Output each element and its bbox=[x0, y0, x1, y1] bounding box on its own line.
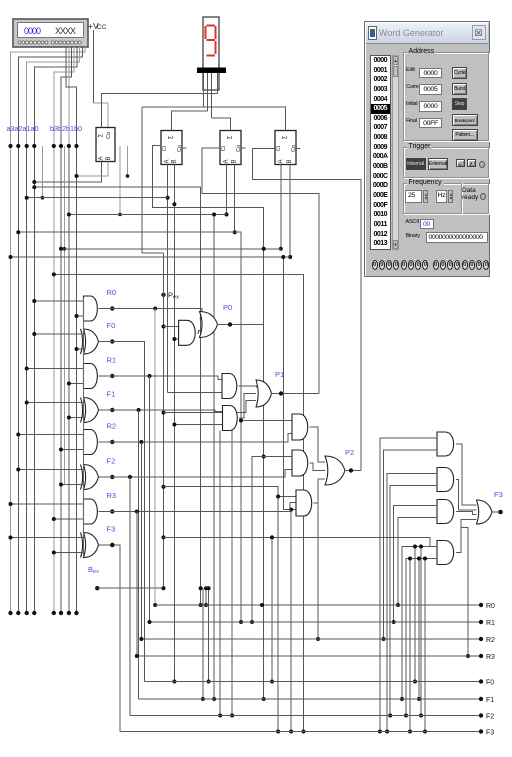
wire F2 input bottom bbox=[61, 484, 84, 486]
node F3 and2 in1 bbox=[385, 730, 389, 734]
wire Pex to F3 and4 in1 bbox=[164, 537, 438, 546]
gate P1 AND2 bbox=[223, 406, 238, 431]
wire F0 output bbox=[99, 342, 145, 682]
node a1 tap bbox=[25, 144, 29, 148]
node b3 tap rail F3 bbox=[302, 730, 306, 734]
wire P0 or out bbox=[218, 324, 264, 326]
wire XWG1 out to bus b0 bbox=[66, 47, 76, 146]
wire U2 A pin drop and riser to P1 bbox=[167, 165, 169, 393]
svg-text:a3a2a1a0: a3a2a1a0 bbox=[7, 124, 39, 133]
node riser 415 top bbox=[413, 545, 417, 549]
wire U2 B riser link to P0 and bbox=[174, 338, 178, 340]
wire F2 to rail bbox=[129, 477, 131, 716]
wire R3 input top from a3 bbox=[11, 503, 84, 505]
node a2 end bbox=[16, 611, 20, 615]
gate P1 OR bbox=[256, 380, 272, 407]
group Trigger bbox=[403, 147, 489, 179]
node a3 tap bbox=[8, 144, 12, 148]
wire Pex to P1 or gate bbox=[164, 401, 257, 413]
node riser 291 T bbox=[289, 508, 293, 512]
address list bbox=[370, 55, 391, 250]
wire XWG1 out to bus a2 bbox=[18, 47, 82, 146]
wire P1 and2 out to or bbox=[239, 394, 256, 419]
wire F3 and3 out to or bbox=[456, 512, 477, 515]
svg-text:R2: R2 bbox=[486, 637, 495, 644]
node F3 and1 in2 bbox=[382, 637, 386, 641]
node rail R3 end bbox=[479, 654, 483, 658]
wire U2 Ci from P0 bbox=[152, 146, 263, 325]
node F2 in bottom bbox=[59, 483, 63, 487]
rail R1 bbox=[150, 621, 482, 623]
node F3 in bottom bbox=[52, 551, 56, 555]
node a0 end bbox=[32, 611, 36, 615]
display black bar bbox=[197, 68, 226, 74]
node rail R1 end bbox=[479, 620, 483, 624]
wire riser 291 to rail F3 bbox=[290, 510, 292, 732]
svg-text:Σ: Σ bbox=[228, 135, 234, 139]
node a2 tap bbox=[16, 230, 20, 234]
svg-text:R3: R3 bbox=[107, 491, 117, 500]
svg-text:XXXX: XXXX bbox=[55, 26, 76, 36]
wire U3 B pin drop bbox=[234, 165, 236, 233]
svg-text:b3b2b1b0: b3b2b1b0 bbox=[50, 124, 82, 133]
wire U3 sum to display bbox=[212, 118, 231, 131]
node riser 425 top bbox=[423, 557, 427, 561]
wire riser 415 rail F0 bbox=[414, 547, 416, 682]
node R3 output bbox=[110, 509, 114, 513]
wire F1 output bbox=[99, 410, 223, 412]
svg-text:P0: P0 bbox=[223, 303, 232, 312]
node F0 in bottom bbox=[75, 347, 79, 351]
wire feeder x120 bbox=[119, 146, 121, 215]
svg-text:F2: F2 bbox=[107, 457, 116, 466]
node b0 end bbox=[74, 611, 78, 615]
node riser 415 bottom bbox=[413, 680, 417, 684]
wire F1 input bottom bbox=[69, 417, 84, 419]
node a0 tap rail bbox=[199, 603, 203, 607]
wire U4 B pin drop bbox=[289, 165, 291, 258]
bus wire b3 vertical bbox=[53, 146, 55, 613]
svg-text:F3: F3 bbox=[107, 525, 116, 534]
svg-text:B: B bbox=[171, 159, 177, 163]
full adder U2 bbox=[161, 131, 183, 165]
gate F3 AND2 bbox=[437, 468, 454, 492]
node U3 A on b1 tap bbox=[225, 213, 229, 217]
node riser 421 bottom bbox=[419, 714, 423, 718]
node drop 263 rail F1 bbox=[262, 697, 266, 701]
node Pex tap4 bbox=[162, 485, 166, 489]
wire a1 tap to U2 A bbox=[27, 197, 168, 199]
wire riser 419 rail F1 bbox=[418, 559, 420, 700]
svg-text:B: B bbox=[232, 159, 238, 163]
node a2 tap bbox=[16, 144, 20, 148]
terminal row bbox=[366, 259, 488, 275]
wire U2 B riser link to P1 and2 bbox=[174, 424, 222, 426]
wire R0 to rail bbox=[154, 309, 156, 606]
wire P0 and out to or bbox=[197, 331, 200, 333]
wire P2 or out bbox=[346, 470, 361, 472]
node R0 branch bbox=[153, 307, 157, 311]
gate P2 AND2 bbox=[292, 450, 308, 476]
node R3 in top bbox=[9, 502, 13, 506]
wire R1 to rail bbox=[149, 376, 151, 622]
wire Vcc to U1 pin gray bbox=[94, 103, 109, 128]
gate F3 XOR bbox=[84, 533, 99, 558]
node feeder 127 on U1 B wire bbox=[127, 175, 129, 177]
wire P1 or out bbox=[271, 393, 319, 395]
wire U4 sum to display bbox=[142, 107, 286, 131]
node rail F1 end bbox=[479, 697, 483, 701]
wire U3 A pin drop bbox=[226, 165, 228, 215]
node b1 end bbox=[67, 611, 71, 615]
wire R2 to rail bbox=[140, 442, 142, 639]
svg-text:F3: F3 bbox=[486, 729, 494, 736]
node a0 tap bex cross bbox=[199, 586, 203, 590]
node a0 tap bbox=[32, 144, 36, 148]
svg-text:R1: R1 bbox=[486, 620, 495, 627]
wire R0 input top from a0 bbox=[34, 300, 83, 302]
node P1 bbox=[279, 391, 283, 395]
wire riser 421 rail F2 bbox=[420, 547, 422, 716]
node riser 410 bottom bbox=[408, 730, 412, 734]
wire XWG1 out to bus b1 bbox=[68, 47, 70, 146]
wire P2 and3 out to or bbox=[314, 479, 326, 503]
node riser 291 rail F3 bbox=[289, 730, 293, 734]
gate F2 XOR bbox=[84, 465, 99, 490]
svg-text:P1: P1 bbox=[275, 370, 284, 379]
wire R3 output bbox=[99, 503, 297, 512]
wire R2 input top from a2 bbox=[18, 434, 83, 436]
node drop 263 join bbox=[262, 455, 266, 459]
svg-text:A: A bbox=[224, 159, 230, 163]
wire feeder x64 bbox=[63, 146, 65, 485]
node rail R2 end bbox=[479, 637, 483, 641]
node rail R0 end bbox=[479, 603, 483, 607]
node b3 end bbox=[52, 611, 56, 615]
svg-text:0000: 0000 bbox=[24, 26, 41, 36]
node rail R0 start bbox=[153, 603, 157, 607]
wire F2 output bbox=[99, 470, 293, 478]
node riser 232 rail F2 bbox=[230, 714, 234, 718]
node R1 output bbox=[110, 374, 114, 378]
wire riser x272 rail F0 to Pex line bbox=[271, 537, 273, 681]
wire U4 A pin drop bbox=[280, 165, 282, 249]
node U4 A on b2 tap bbox=[279, 247, 283, 251]
svg-text:R1: R1 bbox=[107, 356, 117, 365]
wire R1 output bbox=[99, 376, 223, 380]
node a0 to U1 bbox=[32, 180, 36, 184]
node rail junction bbox=[139, 637, 143, 641]
ascii / binary bbox=[406, 219, 419, 225]
node x318 rail R2 bbox=[316, 637, 320, 641]
node F0 in top bbox=[32, 332, 36, 336]
half adder U1 bbox=[96, 128, 115, 162]
wire R1 input bottom bbox=[69, 383, 84, 385]
node riser 202 rail F1 bbox=[201, 697, 205, 701]
wire U1 sum to display bbox=[101, 94, 217, 128]
wire b1 tap to U3 A bbox=[69, 214, 227, 216]
wire R3 input bottom bbox=[54, 518, 84, 520]
rail R2 bbox=[141, 638, 481, 640]
wire stub chip4 sum left drop bbox=[141, 107, 143, 253]
full adder U3 bbox=[220, 131, 242, 165]
node riser x272 bottom bbox=[270, 680, 274, 684]
wire F3 and2 out to or bbox=[456, 480, 477, 511]
node P2 and2 in1 bbox=[250, 620, 254, 624]
wire a0 tap down P1 column bbox=[34, 187, 200, 605]
gate R2 AND bbox=[84, 430, 98, 455]
node drop 283 T bbox=[281, 255, 285, 259]
bus wire a1 vertical bbox=[26, 146, 28, 613]
node feeder 120 bbox=[118, 213, 122, 217]
full adder U4 bbox=[275, 131, 297, 165]
node stub 206 rail bbox=[204, 603, 208, 607]
wire F3 and1 in2 from rail R2 bbox=[384, 450, 438, 639]
gate F3 OR bbox=[477, 500, 493, 524]
node F0 output bbox=[110, 339, 114, 343]
node b0 to U1 bbox=[75, 174, 79, 178]
node F3 and2 in2 bbox=[388, 714, 392, 718]
wire stub 206 bex to rail R0 bbox=[205, 588, 207, 605]
rail F2 bbox=[130, 715, 481, 717]
wire F3 and1 in1 from rail F3 bbox=[380, 438, 437, 732]
wire feeder x42 bbox=[41, 146, 43, 198]
node a0 tap bbox=[32, 185, 36, 189]
wire XWG1 out to bus a0 bbox=[34, 47, 77, 146]
wire U4 Co stub bbox=[296, 147, 301, 149]
rail F1 bbox=[139, 698, 481, 700]
node R1 in top bbox=[25, 367, 29, 371]
node F1 in bottom bbox=[67, 416, 71, 420]
svg-text:A: A bbox=[165, 159, 171, 163]
node F1 in top bbox=[25, 401, 29, 405]
wire feeder x127 bbox=[127, 146, 129, 176]
wire Pex riser link bbox=[142, 252, 164, 254]
wire U3 Ci from P1 bbox=[202, 148, 319, 394]
node rail F3 end bbox=[479, 729, 483, 733]
wire U2 A riser link to P1 and1 bbox=[168, 392, 222, 394]
node F3 and3 in1 bbox=[392, 620, 396, 624]
wire U2 Co stub bbox=[182, 147, 187, 149]
wire F3 and4 in1 from rail F1 bbox=[402, 547, 437, 700]
node Bex bbox=[95, 586, 99, 590]
rail F0 bbox=[144, 681, 481, 683]
node F2 in top bbox=[16, 468, 20, 472]
wire XWG1 out to bus a1 bbox=[27, 47, 80, 146]
wire R1 input top from a1 bbox=[27, 368, 84, 370]
wire U2 sum to display bbox=[172, 111, 208, 130]
node rail F0 end bbox=[479, 679, 483, 683]
node a2 tap rail bbox=[239, 620, 243, 624]
wire F3 and1 out to or bbox=[456, 444, 477, 505]
wire U1 A input from a0 bbox=[34, 162, 101, 183]
bus wire b2 vertical bbox=[60, 146, 62, 613]
svg-text:R0: R0 bbox=[107, 288, 117, 297]
node b0 tap bbox=[74, 144, 78, 148]
power +Vcc symbol bbox=[88, 21, 107, 31]
wire F3 input top from a3 bbox=[11, 537, 84, 539]
node riser 220 rail F2 bbox=[218, 714, 222, 718]
node F3g branch bbox=[110, 543, 114, 547]
node b2 tap bbox=[59, 247, 63, 251]
bus wire b1 vertical bbox=[68, 146, 70, 613]
rail R0 bbox=[155, 604, 481, 606]
wire F3 and2 in2 from rail F2 bbox=[390, 486, 437, 716]
node F3 and4 in1 bbox=[400, 697, 404, 701]
node R0 in bottom bbox=[75, 314, 79, 318]
node P0 bbox=[228, 322, 232, 326]
node b2 end bbox=[59, 611, 63, 615]
node U2 B riser rail F0 bbox=[172, 680, 176, 684]
node riser 419 bottom bbox=[417, 697, 421, 701]
node R1 branch bbox=[148, 374, 152, 378]
node Pex bbox=[161, 293, 165, 297]
wire riser 232 rail F2 decorative bbox=[231, 431, 233, 716]
display pin wires bbox=[204, 73, 218, 118]
node rail F2 end bbox=[479, 713, 483, 717]
gate P0 OR bbox=[200, 312, 218, 338]
wire drop 214 to rail F1 bbox=[213, 215, 215, 700]
svg-text:A: A bbox=[278, 159, 284, 163]
node drop 214 rail F1 bbox=[212, 697, 216, 701]
wire F3 or out bbox=[492, 511, 498, 513]
svg-text:CC: CC bbox=[97, 24, 107, 31]
wire F1 input top from a1 bbox=[27, 402, 84, 404]
node R2 output bbox=[110, 440, 114, 444]
svg-text:Ci: Ci bbox=[162, 146, 168, 151]
display U5 seven-segment bbox=[203, 17, 219, 90]
wire F2 input top from a2 bbox=[18, 469, 83, 471]
node a2 tap join bbox=[239, 419, 243, 423]
node a3 tap bbox=[9, 255, 13, 259]
gate P2 OR bbox=[325, 456, 345, 485]
wire b2 tap to U4 A bbox=[61, 248, 281, 250]
gate F1 XOR bbox=[84, 398, 99, 423]
gate R3 AND bbox=[84, 499, 98, 524]
wire rail R3 riser bbox=[461, 527, 468, 656]
wire F3g output bbox=[99, 545, 121, 732]
node Pex tap3 bbox=[162, 411, 166, 415]
svg-text:Bex: Bex bbox=[88, 565, 99, 575]
svg-text:P2: P2 bbox=[345, 448, 354, 457]
svg-text:B: B bbox=[287, 159, 293, 163]
node Pex tap5 bbox=[162, 535, 166, 539]
svg-text:Pex: Pex bbox=[168, 291, 179, 301]
group Address bbox=[403, 52, 489, 141]
wire Bex horizontal bbox=[97, 587, 163, 589]
wire drop 263 to rail F1 bbox=[263, 249, 265, 699]
bus wire b0 vertical bbox=[76, 146, 78, 613]
wire F3 and3 in2 from rail R0 bbox=[398, 518, 437, 606]
node Pex tap4 T bbox=[276, 495, 280, 499]
node U3 B on a2 tap bbox=[233, 230, 237, 234]
gate F3 AND3 bbox=[437, 500, 454, 524]
svg-text:Ci: Ci bbox=[221, 146, 227, 151]
wire R0 output bbox=[99, 309, 203, 319]
node b1 tap bbox=[67, 144, 71, 148]
svg-text:R0: R0 bbox=[486, 603, 495, 610]
node feeder 42 bbox=[41, 196, 45, 200]
gate F3 AND4 bbox=[437, 541, 454, 565]
wire Vcc vertical bbox=[93, 30, 95, 103]
node U2 B riser P0 T bbox=[172, 337, 176, 341]
wire F0 input bottom bbox=[77, 348, 84, 350]
wire XWG1 out to bus a3 bbox=[11, 47, 86, 146]
node F2 branch bbox=[128, 475, 132, 479]
wire P2 and1 out to or bbox=[310, 427, 326, 462]
wire Pex to P2 and3 in1 bbox=[164, 487, 279, 732]
wire U4 Ci from P2 bbox=[253, 148, 361, 470]
bus wire a3 vertical bbox=[10, 146, 12, 613]
node R2 in bottom bbox=[59, 448, 63, 452]
node F3 and3 in2 bbox=[396, 603, 400, 607]
wire U2 B pin drop and riser bbox=[173, 165, 175, 682]
node b3 tap bbox=[52, 144, 56, 148]
gate P2 AND1 bbox=[292, 414, 308, 440]
node F1 output bbox=[110, 408, 114, 412]
node F3 in top bbox=[9, 536, 13, 540]
node b2 tap bbox=[59, 144, 63, 148]
rail R3 bbox=[137, 655, 481, 657]
gate P1 AND1 bbox=[222, 374, 237, 399]
node rail R3 riser bbox=[466, 654, 470, 658]
wire a2 tap to and1 link bbox=[241, 420, 292, 422]
gate P0 AND bbox=[179, 320, 196, 345]
node riser 208 top bbox=[207, 586, 211, 590]
node P2 bbox=[349, 468, 353, 472]
wire F1 to rail bbox=[138, 410, 140, 699]
svg-text:F0: F0 bbox=[107, 321, 116, 330]
wire P2 and2 in1 from rail R1 bbox=[252, 457, 292, 623]
node b3 tap bbox=[52, 272, 56, 276]
wire F3 and2 in1 from rail F3 bbox=[387, 474, 437, 732]
node feeder 127 bbox=[126, 174, 130, 178]
gate R0 AND bbox=[84, 296, 98, 321]
node R2 branch bbox=[139, 440, 143, 444]
wire F3 and4 in2 from rail F2 bbox=[406, 559, 437, 716]
node rail junction bbox=[260, 603, 264, 607]
node R0 output bbox=[110, 306, 114, 310]
wire riser 208 rail F0 to Bex bbox=[208, 588, 210, 681]
scrollbar bbox=[392, 55, 399, 250]
node riser x272 top bbox=[270, 535, 274, 539]
wire riser 220 rail F2 bbox=[219, 431, 221, 716]
wire F0 input top from a0 bbox=[34, 333, 83, 335]
wire R2 input bottom bbox=[61, 449, 84, 451]
svg-text:F1: F1 bbox=[107, 390, 116, 399]
gate R1 AND bbox=[84, 364, 98, 389]
svg-text:R2: R2 bbox=[107, 422, 117, 431]
node U2 B riser P1 T bbox=[172, 423, 176, 427]
node F3 bbox=[498, 510, 503, 515]
svg-text:F1: F1 bbox=[486, 697, 494, 704]
svg-text:R3: R3 bbox=[486, 654, 495, 661]
wire a2 tap to P2 and1 bbox=[18, 232, 241, 622]
wire drop 283 to P2 and3 bbox=[283, 257, 296, 510]
node R3 in bottom bbox=[52, 517, 56, 521]
node Pex tap4 rail F3 bbox=[276, 730, 280, 734]
node stub 206 bex bbox=[204, 586, 208, 590]
icon terminal row bbox=[18, 41, 81, 44]
wire P1 and1 out to or bbox=[238, 386, 256, 388]
bus wire a2 vertical bbox=[17, 146, 19, 613]
wire riser 202 decorative bbox=[202, 588, 204, 699]
wire F3 input bottom bbox=[54, 552, 84, 554]
node b1 tap bbox=[67, 213, 71, 217]
wire riser 410 rail F3 bbox=[409, 559, 411, 732]
wire Pex to P0 and gate bbox=[164, 326, 179, 328]
node a1 end bbox=[25, 611, 29, 615]
